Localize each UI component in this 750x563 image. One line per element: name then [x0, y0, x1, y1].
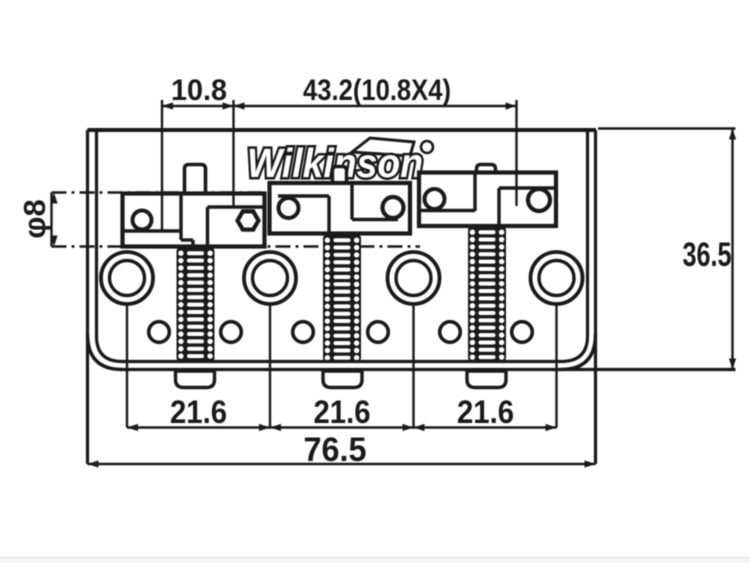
extension line below hole 1	[126, 305, 128, 428]
bottom tab slot 1	[176, 371, 215, 388]
svg-text:43.2(10.8X4): 43.2(10.8X4)	[303, 74, 451, 107]
saddle 1 body	[123, 194, 265, 247]
extension line 10.8 right / 43.2 left	[232, 100, 234, 207]
small hole 5	[440, 322, 461, 343]
saddle 2 step lines	[278, 194, 329, 197]
small hole 1	[149, 322, 170, 343]
svg-text:φ8: φ8	[17, 199, 52, 238]
dimension line 76.5	[88, 463, 596, 465]
dimension line 21.6 row	[127, 426, 557, 428]
extension line 10.8 left	[161, 100, 163, 231]
saddle 3 body	[419, 173, 556, 227]
saddle 3 step lines	[419, 209, 475, 212]
Wilkinson logo text	[247, 140, 423, 186]
mounting hole 4 outer	[531, 252, 583, 304]
extension line 43.2 right	[515, 100, 517, 206]
small hole 6	[512, 322, 533, 343]
saddle 1 intonation screw knob	[185, 165, 206, 197]
extension line below hole 2	[269, 305, 271, 428]
saddle 1 step lines	[123, 229, 182, 232]
saddle 1 left height screw	[133, 211, 152, 230]
mounting hole 1 outer	[101, 252, 153, 304]
spring 3	[468, 227, 506, 361]
mounting hole 1 inner	[110, 261, 145, 296]
saddle 2 right height screw	[383, 197, 404, 218]
extension line below hole 3	[412, 305, 414, 428]
extension line 36.5 top	[598, 127, 736, 129]
saddle 2 intonation screw knob	[333, 167, 347, 185]
spring 2	[323, 235, 361, 361]
saddle 2 left height screw	[279, 198, 299, 218]
dimension line 10.8 and 43.2	[162, 105, 517, 107]
dimension line 36.5	[731, 129, 733, 370]
extension line below hole 4	[555, 305, 557, 428]
svg-text:76.5: 76.5	[304, 431, 367, 469]
plate outer right edge + 76.5 extension	[594, 130, 597, 464]
mounting hole 3 inner	[396, 261, 431, 296]
Wilkinson logo banner flourish	[352, 138, 414, 156]
centerline phi8 top tangent	[52, 191, 269, 193]
small hole 3	[293, 322, 314, 343]
bridge plate inner outline	[97, 130, 588, 362]
small hole 2	[221, 322, 242, 343]
small hole 4	[368, 322, 389, 343]
centerline phi8 bottom tangent	[52, 245, 421, 247]
svg-text:36.5: 36.5	[683, 236, 732, 274]
bottom tab slot 3	[467, 371, 506, 388]
Wilkinson logo registered mark	[421, 141, 433, 153]
plate outer bottom edge + 36.5 extension	[120, 368, 736, 371]
saddle 3 left height screw	[425, 189, 445, 209]
spring 1 (intonation screw/spring)	[177, 248, 215, 361]
mounting hole 2 inner	[253, 261, 288, 296]
svg-text:21.6: 21.6	[314, 394, 371, 430]
svg-text:21.6: 21.6	[170, 394, 227, 430]
saddle 2 body	[270, 183, 411, 234]
saddle 3 intonation screw knob	[477, 165, 496, 175]
bottom tab slot 2	[323, 371, 362, 388]
dimension phi8 connector	[50, 193, 52, 247]
svg-text:10.8: 10.8	[171, 74, 227, 107]
bridge plate outer outline	[88, 128, 597, 132]
saddle 3 right height screw	[528, 189, 550, 211]
saddle 1 right height screw (hex)	[238, 211, 259, 229]
svg-text:21.6: 21.6	[457, 394, 514, 430]
mounting hole 3 outer	[388, 252, 440, 304]
plate outer left edge + 76.5 extension	[86, 130, 89, 464]
mounting hole 2 outer	[244, 252, 296, 304]
mounting hole 4 inner	[539, 261, 574, 296]
